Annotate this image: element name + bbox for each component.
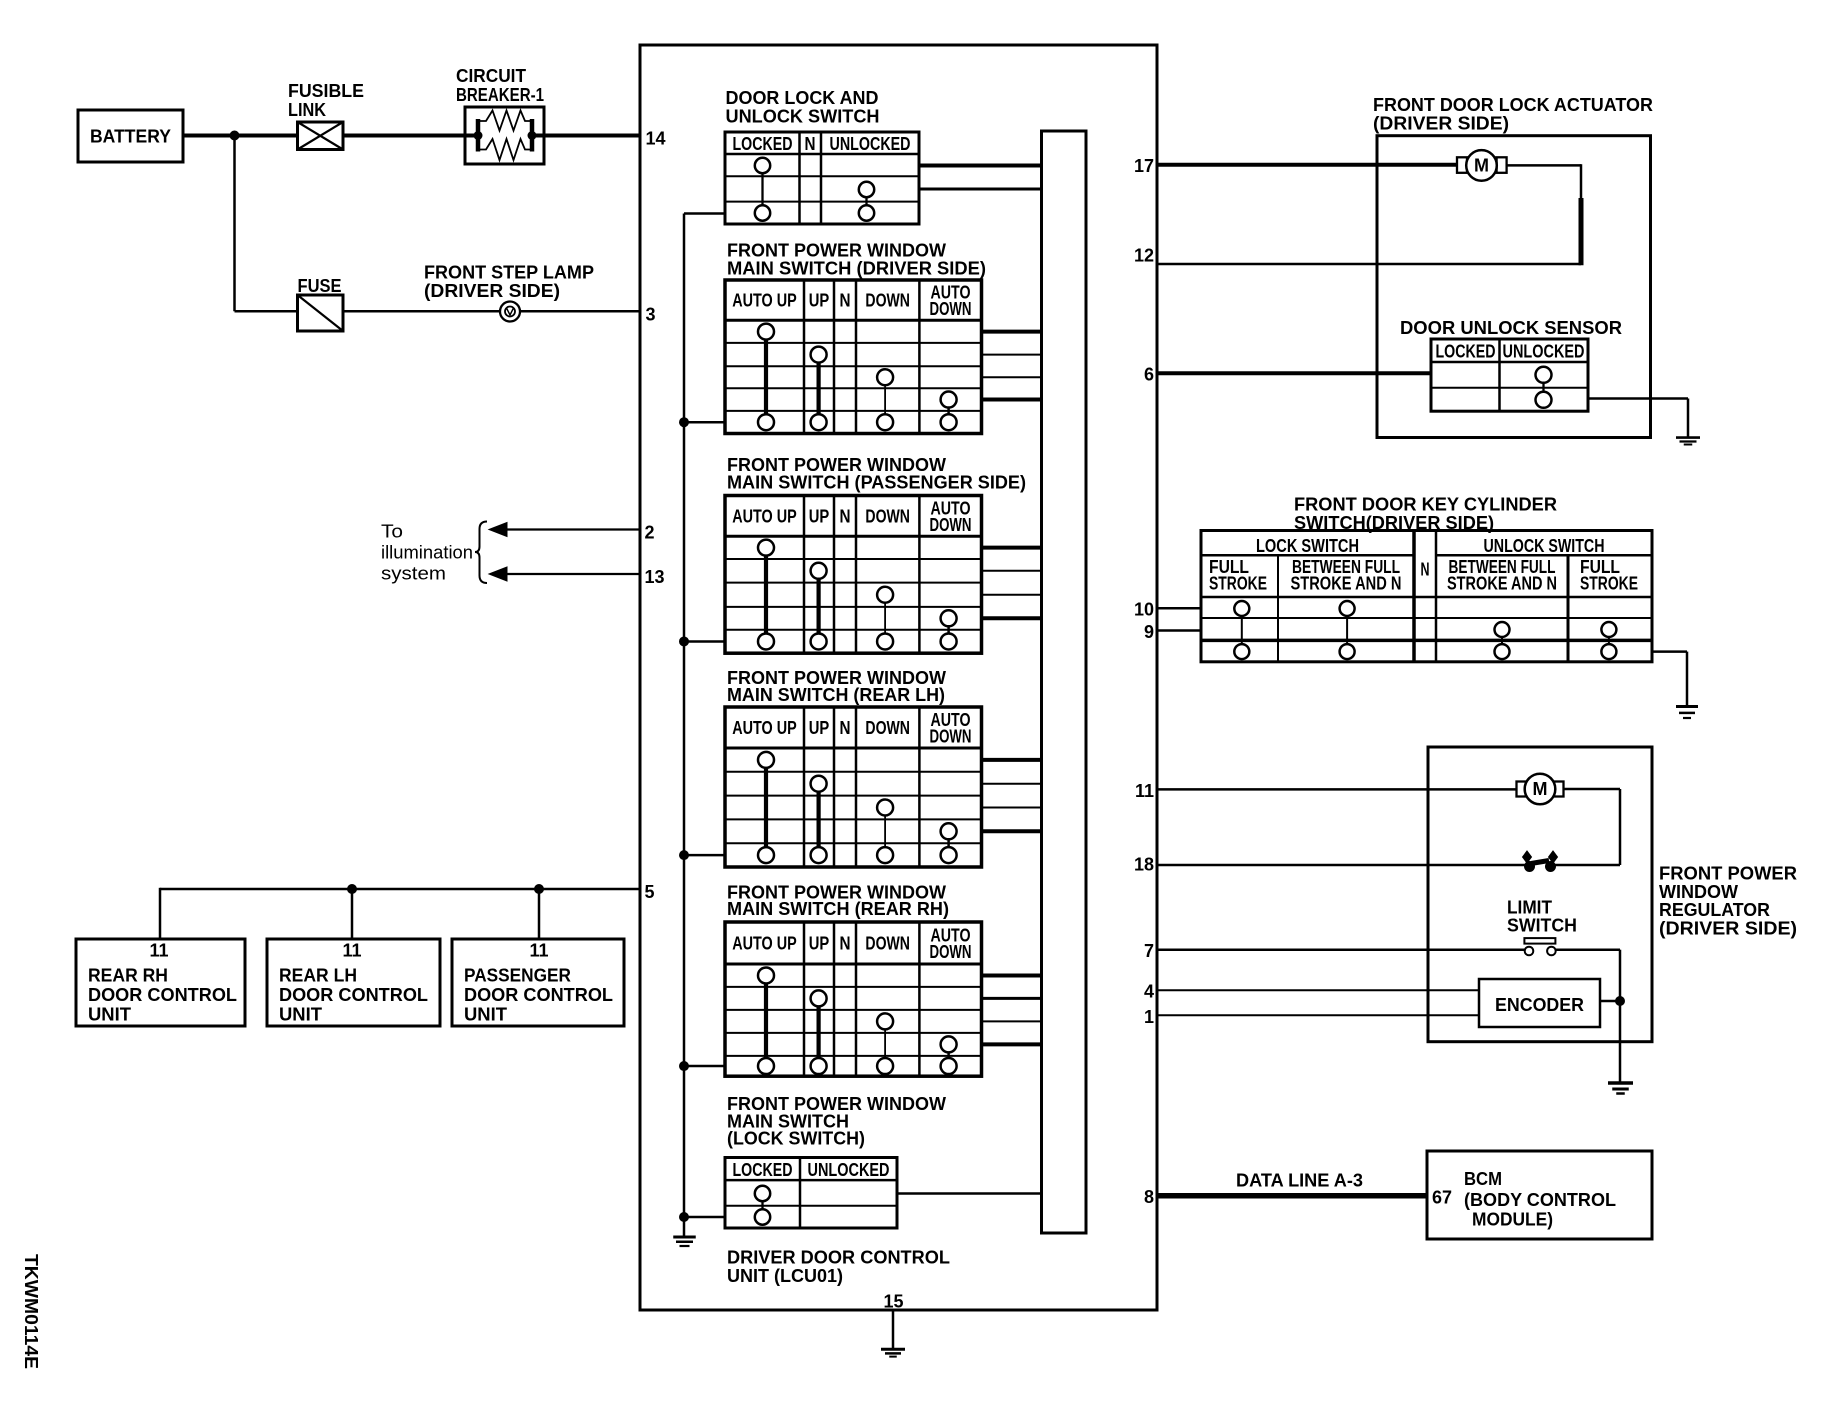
svg-text:DOWN: DOWN xyxy=(930,299,972,319)
svg-text:CIRCUIT: CIRCUIT xyxy=(456,66,526,86)
svg-text:DOOR LOCK AND: DOOR LOCK AND xyxy=(726,88,879,108)
junction rearLH sw common xyxy=(680,851,689,860)
svg-text:MAIN SWITCH (DRIVER SIDE): MAIN SWITCH (DRIVER SIDE) xyxy=(727,259,986,279)
svg-text:DATA LINE A-3: DATA LINE A-3 xyxy=(1236,1171,1363,1191)
wire data line A-3 pin8 to BCM xyxy=(1157,1171,1427,1196)
wire pin12 to lock motor xyxy=(1157,263,1581,266)
motor M (door lock actuator) xyxy=(1457,150,1507,181)
BCM body control module xyxy=(1427,1151,1652,1239)
svg-text:DOOR CONTROL: DOOR CONTROL xyxy=(279,985,428,1005)
svg-text:FRONT DOOR KEY CYLINDER: FRONT DOOR KEY CYLINDER xyxy=(1294,495,1557,515)
svg-text:6: 6 xyxy=(1144,365,1154,385)
wire fuse to step lamp xyxy=(343,310,500,313)
junction on net 5 (rear LH) xyxy=(348,885,357,894)
wire pin11 to window motor xyxy=(1157,788,1517,791)
wire lock table common to ground rail xyxy=(684,1216,725,1219)
svg-text:AUTO UP: AUTO UP xyxy=(732,934,797,954)
svg-text:10: 10 xyxy=(1134,600,1154,620)
svg-text:DOOR CONTROL: DOOR CONTROL xyxy=(88,985,237,1005)
internal connector bus xyxy=(1042,131,1087,1233)
junction encoder/limit ground xyxy=(1616,997,1625,1006)
svg-text:MAIN SWITCH (REAR LH): MAIN SWITCH (REAR LH) xyxy=(727,685,945,705)
wire driver sw out4 to bus xyxy=(982,398,1042,402)
svg-text:illumination: illumination xyxy=(381,543,473,563)
svg-text:UNIT (LCU01): UNIT (LCU01) xyxy=(727,1266,843,1286)
svg-text:UNLOCKED: UNLOCKED xyxy=(1503,342,1585,362)
battery xyxy=(78,110,183,162)
junction rearRH sw common xyxy=(680,1062,689,1071)
junction lock table common xyxy=(680,1213,689,1222)
ground (window regulator) xyxy=(1608,1083,1633,1094)
wire lock motor loop xyxy=(1507,164,1581,265)
svg-text:13: 13 xyxy=(645,567,665,587)
svg-text:FRONT DOOR LOCK ACTUATOR: FRONT DOOR LOCK ACTUATOR xyxy=(1373,95,1653,115)
svg-text:FUSIBLE: FUSIBLE xyxy=(288,81,364,101)
svg-text:DOWN: DOWN xyxy=(865,506,910,526)
wire driver sw out3 to bus xyxy=(982,376,1042,378)
wire lock sw common to ground rail xyxy=(684,212,725,215)
wire rearLH sw out4 to bus xyxy=(982,829,1042,833)
front power window main switch (driver side) xyxy=(725,241,986,434)
svg-text:17: 17 xyxy=(1134,156,1154,176)
svg-text:67: 67 xyxy=(1432,1188,1452,1208)
wire net pin5 bus to door control units xyxy=(160,888,640,891)
wire pin10 to key cylinder xyxy=(1157,607,1201,610)
wire pin18 to thermal protector xyxy=(1157,864,1525,867)
svg-text:REAR RH: REAR RH xyxy=(88,966,168,986)
wire pin9 to key cylinder xyxy=(1157,629,1201,632)
thermal protector (motor protector) xyxy=(1523,851,1621,872)
wire stub to rear LH unit xyxy=(351,889,354,939)
svg-text:BCM: BCM xyxy=(1464,1169,1502,1189)
svg-text:DOWN: DOWN xyxy=(865,718,910,738)
svg-text:STROKE AND N: STROKE AND N xyxy=(1291,574,1402,594)
svg-text:LOCKED: LOCKED xyxy=(733,134,793,154)
ground (key cylinder) xyxy=(1676,707,1698,719)
svg-text:UNLOCKED: UNLOCKED xyxy=(808,1160,890,1180)
wire lock sw out 2 to bus xyxy=(919,188,1042,191)
wire rearLH sw common to ground rail xyxy=(684,854,725,857)
wire rearLH sw out1 to bus xyxy=(982,758,1042,762)
svg-text:STROKE: STROKE xyxy=(1580,574,1638,594)
svg-text:UP: UP xyxy=(809,934,830,954)
svg-text:(DRIVER SIDE): (DRIVER SIDE) xyxy=(1659,918,1797,938)
svg-text:LIMIT: LIMIT xyxy=(1507,898,1552,918)
svg-text:DOOR UNLOCK SENSOR: DOOR UNLOCK SENSOR xyxy=(1400,318,1622,338)
wire rearRH sw out1 to bus xyxy=(982,973,1042,977)
svg-text:(LOCK SWITCH): (LOCK SWITCH) xyxy=(727,1129,865,1149)
wire pin17 to lock motor xyxy=(1157,163,1457,167)
wire battery to fusible link xyxy=(183,134,298,138)
door unlock sensor xyxy=(1400,318,1622,411)
svg-text:UP: UP xyxy=(809,291,830,311)
wire pin6 to unlock sensor xyxy=(1157,371,1431,375)
encoder xyxy=(1479,979,1600,1027)
wire driver sw common to ground rail xyxy=(684,421,725,424)
wire window motor loop xyxy=(1564,789,1621,865)
driver door control unit LCU01 outline xyxy=(640,45,1157,1310)
wire driver sw out1 to bus xyxy=(982,330,1042,334)
svg-text:MAIN SWITCH (REAR RH): MAIN SWITCH (REAR RH) xyxy=(727,899,949,919)
svg-text:DOOR CONTROL: DOOR CONTROL xyxy=(464,985,613,1005)
wire lock table out to bus xyxy=(897,1192,1042,1195)
front power window main switch (lock switch) xyxy=(725,1094,946,1228)
fusible link xyxy=(288,81,364,150)
front power window main switch (rear RH) xyxy=(725,883,982,1077)
svg-text:LOCK SWITCH: LOCK SWITCH xyxy=(1256,536,1359,556)
svg-text:M: M xyxy=(1474,156,1489,176)
svg-text:STROKE AND N: STROKE AND N xyxy=(1447,574,1557,594)
svg-text:12: 12 xyxy=(1134,246,1154,266)
wire driver sw out2 to bus xyxy=(982,354,1042,356)
unit label LCU01 xyxy=(727,1248,950,1287)
svg-text:11: 11 xyxy=(149,941,168,961)
wire arrow pin 2 to illumination xyxy=(489,523,640,537)
svg-text:MODULE): MODULE) xyxy=(1472,1210,1553,1230)
svg-text:MAIN SWITCH (PASSENGER SIDE): MAIN SWITCH (PASSENGER SIDE) xyxy=(727,473,1026,493)
wire rearLH sw out2 to bus xyxy=(982,783,1042,785)
front door lock actuator (driver side) xyxy=(1373,95,1653,438)
svg-text:UNLOCKED: UNLOCKED xyxy=(830,134,911,154)
circuit breaker CB1 xyxy=(456,66,544,164)
wire arrow pin 13 to illumination xyxy=(489,567,640,581)
wire pass sw out4 to bus xyxy=(982,616,1042,620)
limit switch xyxy=(1507,898,1577,956)
svg-text:UP: UP xyxy=(809,506,830,526)
drawing number TKWM0114E xyxy=(21,1254,41,1369)
front step lamp (driver side) xyxy=(424,263,594,322)
front power window main switch (passenger side) xyxy=(725,455,1026,653)
svg-text:UNIT: UNIT xyxy=(464,1005,507,1025)
svg-text:4: 4 xyxy=(1144,982,1154,1002)
svg-text:REGULATOR: REGULATOR xyxy=(1659,900,1770,920)
svg-text:8: 8 xyxy=(1144,1187,1154,1207)
wire stub to passenger unit xyxy=(538,889,541,939)
wire key cylinder to ground xyxy=(1652,652,1687,706)
junction on net 5 (passenger) xyxy=(535,885,544,894)
wire fusible link to circuit breaker xyxy=(343,134,478,138)
ground (pin 15) xyxy=(881,1310,905,1357)
svg-text:system: system xyxy=(381,564,446,584)
svg-text:UP: UP xyxy=(809,718,830,738)
svg-text:BREAKER-1: BREAKER-1 xyxy=(456,85,544,105)
svg-text:11: 11 xyxy=(1135,781,1154,801)
wire step lamp to pin 3 xyxy=(521,310,641,313)
svg-text:WINDOW: WINDOW xyxy=(1659,882,1738,902)
wire lock sw out 1 to bus xyxy=(919,164,1042,168)
svg-text:AUTO UP: AUTO UP xyxy=(732,291,797,311)
svg-text:FUSE: FUSE xyxy=(298,276,342,296)
svg-text:3: 3 xyxy=(646,305,656,325)
svg-text:11: 11 xyxy=(342,941,361,961)
svg-text:LINK: LINK xyxy=(288,100,326,120)
svg-text:N: N xyxy=(805,134,816,154)
svg-text:STROKE: STROKE xyxy=(1209,574,1267,594)
svg-text:DRIVER DOOR CONTROL: DRIVER DOOR CONTROL xyxy=(727,1248,950,1268)
svg-text:N: N xyxy=(1421,560,1430,580)
wire branch down to fuse xyxy=(233,136,236,312)
internal ground wire (left vertical) xyxy=(683,214,686,1219)
svg-text:5: 5 xyxy=(645,882,655,902)
svg-text:DOWN: DOWN xyxy=(930,515,972,535)
svg-text:UNLOCK SWITCH: UNLOCK SWITCH xyxy=(1484,536,1605,556)
svg-text:N: N xyxy=(840,506,851,526)
junction pass sw common xyxy=(680,637,689,646)
svg-text:14: 14 xyxy=(646,129,666,149)
wire pin1 to encoder xyxy=(1157,1014,1479,1016)
node: to illumination system xyxy=(381,522,487,584)
junction battery branch xyxy=(230,131,239,140)
svg-text:N: N xyxy=(840,291,851,311)
ground (internal rail) xyxy=(673,1217,696,1246)
svg-text:7: 7 xyxy=(1144,941,1154,961)
svg-text:(DRIVER SIDE): (DRIVER SIDE) xyxy=(424,281,560,301)
wire rearRH sw out4 to bus xyxy=(982,1042,1042,1046)
svg-text:ENCODER: ENCODER xyxy=(1495,995,1584,1015)
wire pass sw out3 to bus xyxy=(982,594,1042,596)
svg-text:FRONT STEP LAMP: FRONT STEP LAMP xyxy=(424,263,594,283)
svg-text:(BODY CONTROL: (BODY CONTROL xyxy=(1464,1190,1616,1210)
motor M (window regulator) xyxy=(1517,774,1564,805)
svg-text:LOCKED: LOCKED xyxy=(733,1160,793,1180)
svg-text:UNIT: UNIT xyxy=(88,1005,131,1025)
svg-text:2: 2 xyxy=(645,523,655,543)
wire pass sw out2 to bus xyxy=(982,570,1042,572)
svg-text:DOWN: DOWN xyxy=(930,727,972,747)
svg-text:BATTERY: BATTERY xyxy=(90,127,171,147)
wire rearLH sw out3 to bus xyxy=(982,807,1042,809)
wire pass sw out1 to bus xyxy=(982,546,1042,550)
svg-text:DOWN: DOWN xyxy=(865,934,910,954)
svg-text:SWITCH: SWITCH xyxy=(1507,916,1577,936)
rear RH door control unit xyxy=(76,939,245,1026)
svg-text:DOWN: DOWN xyxy=(930,942,972,962)
svg-text:UNIT: UNIT xyxy=(279,1005,322,1025)
wire rearRH sw out3 to bus xyxy=(982,1020,1042,1022)
svg-text:DOWN: DOWN xyxy=(865,291,910,311)
wire branch to fuse xyxy=(235,310,298,313)
wire pass sw common to ground rail xyxy=(684,640,725,643)
svg-text:AUTO UP: AUTO UP xyxy=(732,718,797,738)
door lock and unlock switch xyxy=(725,88,919,224)
svg-text:PASSENGER: PASSENGER xyxy=(464,966,571,986)
front power window main switch (rear LH) xyxy=(725,668,982,867)
rear LH door control unit xyxy=(267,939,440,1026)
svg-text:UNLOCK SWITCH: UNLOCK SWITCH xyxy=(726,107,880,127)
passenger door control unit xyxy=(452,939,624,1026)
junction driver sw common xyxy=(680,418,689,427)
svg-text:M: M xyxy=(1533,779,1548,799)
svg-text:TKWM0114E: TKWM0114E xyxy=(21,1254,41,1369)
svg-text:9: 9 xyxy=(1144,622,1154,642)
wire pin4 to encoder xyxy=(1157,989,1479,991)
front power window regulator (driver side) xyxy=(1428,747,1797,1042)
svg-text:LOCKED: LOCKED xyxy=(1436,342,1496,362)
svg-text:N: N xyxy=(840,934,851,954)
svg-text:18: 18 xyxy=(1134,855,1154,875)
svg-text:To: To xyxy=(381,522,403,542)
svg-text:REAR LH: REAR LH xyxy=(279,966,357,986)
svg-text:1: 1 xyxy=(1144,1007,1154,1027)
svg-text:FRONT POWER WINDOW: FRONT POWER WINDOW xyxy=(727,241,946,261)
wire circuit breaker to pin 14 xyxy=(532,134,640,138)
wire rearRH sw common to ground rail xyxy=(684,1065,725,1068)
svg-text:15: 15 xyxy=(883,1292,903,1312)
wire pin7 through limit switch xyxy=(1157,950,1620,1001)
svg-text:N: N xyxy=(840,718,851,738)
wire unlock sensor to ground xyxy=(1588,399,1688,438)
wire stub to rear RH unit xyxy=(159,888,162,939)
svg-text:AUTO UP: AUTO UP xyxy=(732,506,797,526)
front door key cylinder switch (driver side) xyxy=(1201,495,1652,662)
ground (unlock sensor) xyxy=(1676,438,1700,445)
fuse xyxy=(298,276,344,331)
svg-text:(DRIVER SIDE): (DRIVER SIDE) xyxy=(1373,114,1509,134)
wire encoder to ground xyxy=(1600,1001,1620,1082)
svg-text:11: 11 xyxy=(529,941,548,961)
wire rearRH sw out2 to bus xyxy=(982,997,1042,1000)
svg-text:FRONT POWER: FRONT POWER xyxy=(1659,864,1797,884)
